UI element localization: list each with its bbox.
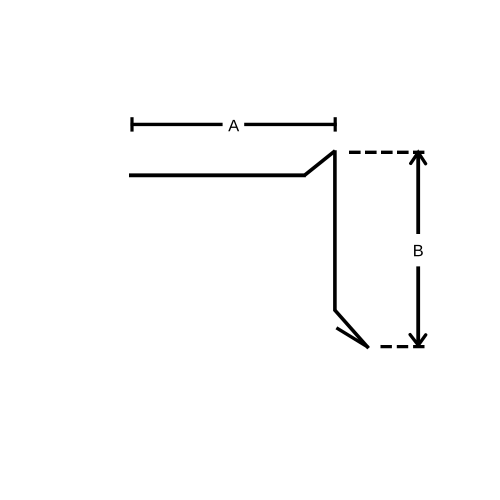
dimension B bottom arrowhead (chevron down): [410, 335, 426, 346]
profile top flange (horizontal): [129, 173, 306, 177]
dimension A right tick: [334, 117, 337, 131]
dimension B shaft lower segment: [416, 266, 420, 344]
dimension B top arrowhead (chevron up): [411, 152, 426, 163]
profile rise (diagonal up): [305, 151, 336, 176]
dimension A line left segment: [130, 123, 222, 126]
label B: [414, 245, 423, 256]
dimension A line right segment: [244, 123, 337, 126]
label A: [228, 120, 239, 131]
top dashed extension line: [349, 151, 424, 154]
profile face (vertical): [333, 150, 337, 311]
profile kick-out (diagonal): [335, 310, 369, 348]
bottom dashed extension line: [381, 345, 425, 348]
profile hem return: [336, 328, 368, 348]
dimension A left tick: [130, 117, 133, 131]
dimension B shaft upper segment: [416, 154, 420, 235]
